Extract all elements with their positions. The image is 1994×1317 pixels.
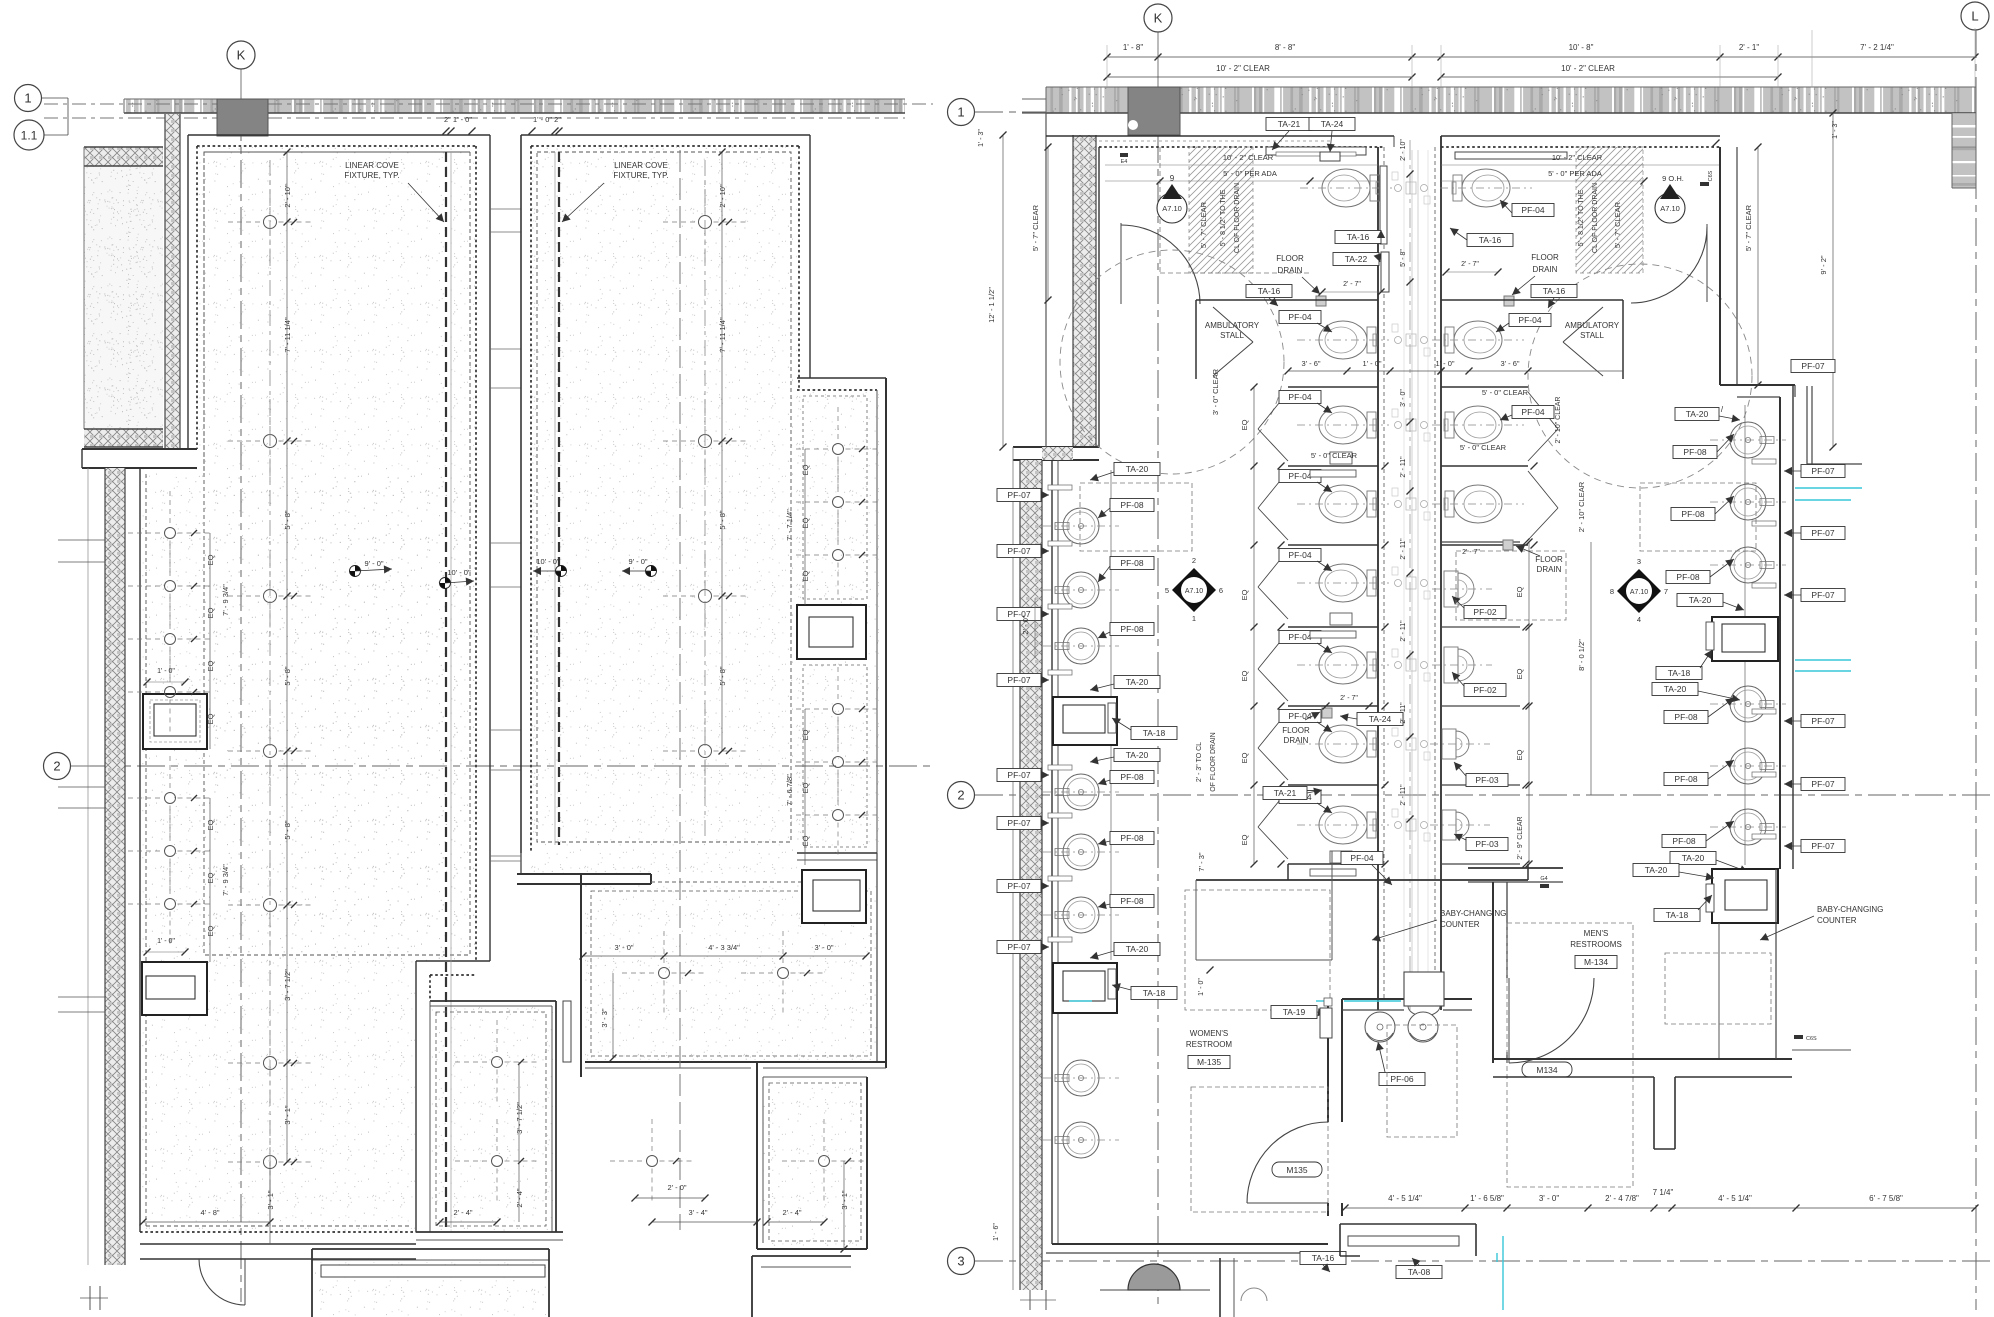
svg-text:TA-18: TA-18 — [1668, 668, 1691, 678]
label PF-02 men 1 — [1464, 606, 1506, 619]
label PF-08 women 1 — [1110, 499, 1154, 512]
svg-text:TA-18: TA-18 — [1666, 910, 1689, 920]
svg-text:DRAIN: DRAIN — [1537, 565, 1562, 574]
women vanity counter edge — [1331, 851, 1333, 960]
shelf above partition (women) a — [1310, 470, 1356, 477]
label TA-20 men ne — [1675, 408, 1719, 421]
svg-text:TA-18: TA-18 — [1143, 728, 1166, 738]
sink PF-08 men 6 — [1730, 809, 1766, 845]
svg-text:TA-16: TA-16 — [1543, 286, 1566, 296]
label TA-22 (women) — [1333, 253, 1379, 266]
women's north wall insulation dashes — [1099, 140, 1330, 142]
svg-text:TA-16: TA-16 — [1258, 286, 1281, 296]
svg-text:EQ: EQ — [1240, 589, 1249, 600]
svg-text:12' - 1 1/2": 12' - 1 1/2" — [987, 287, 996, 323]
men's sink counter line — [1744, 405, 1746, 865]
svg-text:3' - 3": 3' - 3" — [600, 1008, 609, 1027]
svg-text:5: 5 — [1165, 586, 1169, 595]
top dimension string row2 — [1107, 76, 1412, 78]
svg-text:1' - 8": 1' - 8" — [1123, 43, 1144, 52]
svg-text:TA-18: TA-18 — [1143, 988, 1166, 998]
light fixture alcove bay2 3 — [833, 810, 844, 821]
svg-text:4' - 5 1/4": 4' - 5 1/4" — [1388, 1194, 1422, 1203]
svg-text:FLOOR: FLOOR — [1276, 254, 1304, 263]
svg-text:7 1/4": 7 1/4" — [1653, 1188, 1674, 1197]
room B ceiling dashed — [537, 152, 791, 842]
urinal PF-03 men 1 — [1442, 729, 1456, 759]
label TA-20 women 3 — [1114, 749, 1160, 762]
C6S tick — [1700, 182, 1709, 186]
svg-text:7' - 11 1/4": 7' - 11 1/4" — [718, 317, 727, 353]
svg-text:2' - 3" TO CL: 2' - 3" TO CL — [1196, 742, 1203, 782]
women's bottom wall — [1052, 1243, 1328, 1245]
label PF-07 women 2 — [997, 545, 1041, 558]
stall partition women 3 — [1288, 626, 1378, 628]
west wall band B (hatched) — [1020, 460, 1042, 1290]
svg-text:2' - 9" CLEAR: 2' - 9" CLEAR — [1517, 816, 1524, 859]
svg-text:2: 2 — [1192, 556, 1196, 565]
svg-text:TA-20: TA-20 — [1126, 677, 1149, 687]
label PF-08 men 1 — [1673, 446, 1717, 459]
room B south wall — [797, 852, 877, 854]
svg-text:3: 3 — [1637, 557, 1641, 566]
label TA-20 men list — [1677, 594, 1723, 607]
svg-text:8' - 0 1/2": 8' - 0 1/2" — [1577, 639, 1586, 671]
ADA dashed clearance box (women's) — [1160, 272, 1310, 274]
label PF-08 women 4 — [1110, 771, 1154, 784]
grid bubble K (left) — [227, 41, 255, 69]
svg-text:TA-21: TA-21 — [1278, 119, 1301, 129]
toilet PF-04 women 8 — [1297, 806, 1389, 844]
svg-text:EQ: EQ — [801, 517, 810, 528]
svg-text:PF-08: PF-08 — [1672, 836, 1695, 846]
urinal screen men 3 — [1441, 705, 1520, 707]
marker A7.10 diamond (women) — [1172, 568, 1216, 612]
ADA stall side wall (men) — [1622, 300, 1624, 379]
TA-19 unit — [1320, 1008, 1332, 1038]
svg-text:TA-22: TA-22 — [1345, 254, 1368, 264]
svg-text:9: 9 — [1170, 174, 1175, 183]
svg-text:EQ: EQ — [206, 607, 215, 618]
room E inner bar — [563, 1001, 571, 1062]
label TA-20 women 2 — [1114, 676, 1160, 689]
label TA-24 (women mid) — [1357, 713, 1403, 726]
svg-text:EQ: EQ — [1240, 752, 1249, 763]
svg-text:5' - 7" CLEAR: 5' - 7" CLEAR — [1031, 204, 1040, 251]
svg-text:7' - 9 3/4": 7' - 9 3/4" — [221, 584, 230, 616]
room C walls — [651, 881, 802, 883]
light fixture room A center 7 — [264, 1156, 277, 1169]
label PF-07 men ne — [1791, 360, 1835, 373]
grid bubble 1 (right) — [948, 99, 975, 126]
grid line 2 (left, dashed) — [90, 765, 935, 767]
svg-text:PF-08: PF-08 — [1674, 774, 1697, 784]
svg-text:OF FLOOR DRAIN: OF FLOOR DRAIN — [1210, 732, 1217, 792]
stall partition men 1 — [1441, 465, 1528, 467]
svg-text:9' - 0": 9' - 0" — [628, 557, 647, 566]
label PF-08 women 5 — [1110, 832, 1154, 845]
label PF-04 women amb — [1279, 311, 1321, 324]
svg-text:3' - 6": 3' - 6" — [1500, 359, 1519, 368]
svg-text:10' - 2" CLEAR: 10' - 2" CLEAR — [1223, 153, 1274, 162]
dashed clearance urinals — [1456, 551, 1566, 620]
men's clearance dashed — [1507, 923, 1633, 1187]
svg-text:TA-20: TA-20 — [1126, 750, 1149, 760]
label TA-20 women 4 — [1114, 943, 1160, 956]
marker 9/A7.10 (women) — [1157, 193, 1187, 223]
G4 tick men — [1540, 884, 1549, 888]
label TA-08 bottom — [1396, 1266, 1442, 1279]
men's NE wall vertical — [1719, 147, 1721, 385]
svg-text:5' - 8": 5' - 8" — [283, 510, 292, 529]
label TA-18 men 1 — [1656, 667, 1702, 680]
svg-text:EQ: EQ — [1515, 749, 1524, 760]
svg-text:5' - 8": 5' - 8" — [718, 666, 727, 685]
toilet PF-04 men amb — [1432, 321, 1524, 359]
svg-text:2' - 4": 2' - 4" — [453, 1208, 472, 1217]
svg-text:2' - 10" CLEAR: 2' - 10" CLEAR — [1555, 396, 1562, 443]
svg-text:PF-07: PF-07 — [1811, 590, 1834, 600]
stall door men 2 — [1528, 471, 1558, 508]
light fixture alcove bay2 2 — [833, 757, 844, 768]
svg-text:EQ: EQ — [1240, 419, 1249, 430]
floor drain (women mid) — [1322, 708, 1332, 718]
svg-text:PF-07: PF-07 — [1007, 881, 1030, 891]
wall base ticks left — [58, 539, 105, 541]
svg-text:PF-08: PF-08 — [1681, 509, 1704, 519]
label PF-04 women 6 — [1279, 631, 1321, 644]
grid line K (right, dashed) — [1157, 135, 1159, 1310]
label TA-16 (women amb) — [1246, 285, 1292, 298]
top wall band right (hatched) — [1046, 87, 1976, 113]
svg-text:2' - 4 7/8": 2' - 4 7/8" — [1605, 1194, 1639, 1203]
svg-text:RESTROOMS: RESTROOMS — [1570, 940, 1622, 949]
light fixture room A center 5 — [264, 899, 277, 912]
below-wall stubs — [1219, 1258, 1221, 1317]
room D inner dashed — [769, 1083, 861, 1241]
sink PF-08 women 5 — [1063, 834, 1099, 870]
label PF-04 men 3 — [1512, 406, 1554, 419]
light fixture room A west 7 — [165, 899, 176, 910]
svg-text:3: 3 — [957, 1254, 964, 1269]
svg-text:TA-08: TA-08 — [1408, 1267, 1431, 1277]
grid line 1.1 (dashed) — [44, 117, 905, 119]
svg-text:E4: E4 — [1121, 159, 1128, 165]
svg-text:TA-20: TA-20 — [1126, 464, 1149, 474]
grid bubble K (right) — [1144, 4, 1172, 32]
amb door (women) — [1213, 307, 1253, 342]
light fixture room E 1 — [492, 1057, 503, 1068]
women's stall block south wall — [1288, 879, 1441, 881]
label TA-19 — [1271, 1006, 1317, 1019]
svg-text:1' - 6 5/8": 1' - 6 5/8" — [1470, 1194, 1504, 1203]
light fixture room C 2 — [778, 968, 789, 979]
svg-text:A7.10: A7.10 — [1660, 204, 1680, 213]
svg-text:WOMEN'S: WOMEN'S — [1190, 1029, 1228, 1038]
light fixture bottom 2 — [819, 1156, 830, 1167]
E4 tick women nw — [1120, 153, 1128, 157]
svg-text:M134: M134 — [1536, 1065, 1558, 1075]
label TA-18 women 2 — [1131, 987, 1177, 1000]
svg-text:FIXTURE, TYP.: FIXTURE, TYP. — [344, 171, 399, 180]
column at grid K (right) — [1128, 87, 1180, 135]
mirror TA-18 (men) 2 — [1712, 869, 1778, 923]
svg-text:PF-07: PF-07 — [1811, 466, 1834, 476]
svg-text:2' - 10" CLEAR: 2' - 10" CLEAR — [1577, 481, 1586, 532]
svg-text:2' - 11": 2' - 11" — [1400, 620, 1407, 642]
label TA-18 women 1 — [1131, 727, 1177, 740]
top band left stub — [1022, 98, 1046, 100]
svg-text:FLOOR: FLOOR — [1531, 253, 1559, 262]
svg-text:TA-20: TA-20 — [1689, 595, 1712, 605]
label TA-21 (women top) — [1266, 118, 1312, 131]
sink PF-08 men 2 — [1730, 484, 1766, 520]
top wall band (hatched) — [124, 99, 905, 113]
svg-text:PF-07: PF-07 — [1007, 770, 1030, 780]
grid line L (dashed) — [1975, 30, 1977, 1310]
label PF-04 women 8 — [1279, 791, 1321, 804]
light fixture room A west 4 — [165, 687, 176, 698]
light fixture room A center 4 — [264, 745, 277, 758]
label PF-07 women 4 — [997, 674, 1041, 687]
svg-text:AMBULATORY: AMBULATORY — [1565, 321, 1620, 330]
cyan bottom accent — [1502, 1236, 1504, 1310]
sink PF-08 women 8 — [1063, 1122, 1099, 1158]
toilet PF-04 men 4 — [1432, 485, 1524, 523]
chase centerline — [1409, 140, 1411, 1010]
fountain dark semicircle — [1128, 1264, 1180, 1290]
wall base bottom marks — [89, 1286, 91, 1310]
stall partition women 6 — [1288, 863, 1378, 865]
clearance dashed box women nw — [1080, 483, 1192, 551]
men's NE niche wall — [1806, 386, 1808, 464]
svg-text:PF-08: PF-08 — [1683, 447, 1706, 457]
label PF-08 women 2 — [1110, 557, 1154, 570]
toilet PF-04 women 4 — [1297, 485, 1389, 523]
label PF-08 women 6 — [1110, 895, 1154, 908]
bottom changing room — [1340, 1223, 1476, 1225]
vanity dashed boxes — [1387, 1025, 1457, 1137]
stall door men 1 — [1528, 392, 1558, 429]
svg-text:A7.10: A7.10 — [1630, 589, 1648, 596]
svg-text:L: L — [1971, 9, 1978, 24]
men's baby counter edge — [1718, 923, 1720, 1059]
svg-text:EQ: EQ — [206, 925, 215, 936]
svg-text:PF-07: PF-07 — [1811, 841, 1834, 851]
label PF-07 women 1 — [997, 489, 1041, 502]
linear cove dashed line room A — [445, 152, 447, 1228]
label PF-04 women 4 — [1279, 470, 1321, 483]
grid bubble 1.1 — [14, 120, 44, 150]
light fixture room E 2 — [492, 1156, 503, 1167]
svg-text:7' - 3": 7' - 3" — [1197, 852, 1206, 871]
room A door arc (south) — [199, 1259, 245, 1305]
svg-text:7' - 9 3/4": 7' - 9 3/4" — [221, 864, 230, 896]
men's north wall — [1441, 135, 1720, 137]
stall partition women 5 — [1288, 784, 1378, 786]
svg-text:8: 8 — [1610, 587, 1614, 596]
svg-text:PF-04: PF-04 — [1521, 407, 1544, 417]
svg-text:EQ: EQ — [1240, 670, 1249, 681]
toilet PF-04 women 7 — [1297, 725, 1389, 763]
svg-text:PF-07: PF-07 — [1007, 490, 1030, 500]
urinal screen men 4 — [1441, 784, 1520, 786]
svg-text:TA-24: TA-24 — [1321, 119, 1344, 129]
svg-text:3' - 6": 3' - 6" — [1301, 359, 1320, 368]
label TA-16 men top — [1467, 234, 1513, 247]
label PF-08 women 3 — [1110, 623, 1154, 636]
svg-text:AMBULATORY: AMBULATORY — [1205, 321, 1260, 330]
light fixture room A west 6 — [165, 846, 176, 857]
svg-text:3' - 0": 3' - 0" — [1539, 1194, 1560, 1203]
svg-text:STALL: STALL — [1220, 331, 1244, 340]
svg-text:PF-08: PF-08 — [1676, 572, 1699, 582]
room A floor (stipple) — [197, 146, 476, 961]
room A east wall — [489, 135, 491, 961]
stall door women 6 — [1258, 790, 1288, 827]
urinal screen men 2 — [1441, 626, 1520, 628]
label PF-03 men 1 — [1466, 774, 1508, 787]
light fixture room A west 3 — [165, 634, 176, 645]
svg-text:2' - 7": 2' - 7" — [1462, 549, 1480, 556]
svg-text:2' - 7": 2' - 7" — [1461, 261, 1479, 268]
label PF-07 women 8 — [997, 941, 1041, 954]
label M134 — [1522, 1062, 1572, 1077]
room A fixture centerline — [269, 160, 271, 1230]
svg-text:CL OF FLOOR DRAIN: CL OF FLOOR DRAIN — [1592, 183, 1599, 253]
label TA-18 men 2 — [1654, 909, 1700, 922]
label PF-07 women 6 — [997, 817, 1041, 830]
chase pipes (faint) — [1395, 185, 1402, 192]
svg-text:1: 1 — [24, 91, 31, 106]
svg-text:1' - 0": 1' - 0" — [1362, 359, 1381, 368]
label PF-07 men 3 — [1801, 589, 1845, 602]
label PF-07 women 7 — [997, 880, 1041, 893]
svg-text:PF-02: PF-02 — [1473, 685, 1496, 695]
shelf above partition (women) b — [1310, 631, 1356, 638]
svg-text:2' - 0": 2' - 0" — [1021, 615, 1030, 634]
svg-text:1' - 3": 1' - 3" — [1832, 121, 1839, 139]
room D walls — [756, 1062, 758, 1249]
light fixture room B center 2 — [699, 435, 712, 448]
room E floor (stipple) — [430, 1006, 553, 1232]
svg-text:7' - 2 1/4": 7' - 2 1/4" — [1860, 43, 1894, 52]
svg-text:PF-08: PF-08 — [1120, 558, 1143, 568]
label PF-07 men 5 — [1801, 778, 1845, 791]
svg-text:2' - 7": 2' - 7" — [1340, 695, 1358, 702]
svg-text:BABY-CHANGING: BABY-CHANGING — [1440, 909, 1506, 918]
svg-text:2' - 7": 2' - 7" — [1343, 281, 1361, 288]
svg-text:PF-08: PF-08 — [1120, 624, 1143, 634]
sink PF-08 men 4 — [1730, 686, 1766, 722]
label PF-08 men 2 — [1671, 508, 1715, 521]
left outside strip (stipple) — [84, 166, 163, 429]
women's south wall at vanity — [1327, 999, 1329, 1122]
light fixture room B center 3 — [699, 590, 712, 603]
svg-text:5' - 8": 5' - 8" — [283, 820, 292, 839]
toilet PF-04 women 6 — [1297, 646, 1389, 684]
svg-text:4: 4 — [1637, 615, 1641, 624]
svg-text:PF-04: PF-04 — [1288, 392, 1311, 402]
svg-text:PF-07: PF-07 — [1007, 546, 1030, 556]
svg-text:10' - 2" CLEAR: 10' - 2" CLEAR — [1552, 153, 1603, 162]
amb door (men) — [1563, 307, 1603, 342]
svg-text:3' - 1": 3' - 1" — [840, 1190, 849, 1209]
line east of stub — [1792, 1049, 1851, 1051]
svg-text:PF-04: PF-04 — [1518, 315, 1541, 325]
door M134 — [1508, 978, 1510, 1063]
svg-text:2" 1' - 0": 2" 1' - 0" — [444, 115, 472, 124]
alcove niche box — [797, 605, 866, 659]
svg-text:PF-07: PF-07 — [1007, 818, 1030, 828]
grid line 1 (right, dashed) — [975, 111, 1046, 113]
svg-text:9' - 2": 9' - 2" — [1819, 255, 1828, 274]
baby counter clearance dashed (women) — [1185, 890, 1330, 1010]
women's entry door arc — [1120, 223, 1122, 304]
svg-text:RESTROOM: RESTROOM — [1186, 1040, 1233, 1049]
svg-text:2' - 0": 2' - 0" — [667, 1183, 686, 1192]
svg-text:3' - 4": 3' - 4" — [688, 1208, 707, 1217]
svg-text:1' - 0" 2": 1' - 0" 2" — [533, 115, 561, 124]
women's turning circle (dashed) — [1060, 250, 1284, 474]
svg-text:1.1: 1.1 — [21, 128, 38, 142]
label TA-16 bottom — [1300, 1252, 1346, 1265]
light fixture room A center 1 — [264, 216, 277, 229]
svg-text:TA-16: TA-16 — [1347, 232, 1370, 242]
room C inner dashed — [591, 891, 871, 1056]
svg-text:A7.10: A7.10 — [1162, 204, 1182, 213]
svg-text:EQ: EQ — [801, 464, 810, 475]
light fixture room A west 1 — [165, 528, 176, 539]
svg-text:7' - 7 1/4": 7' - 7 1/4" — [785, 509, 794, 541]
room A west wall (upper) — [187, 135, 189, 449]
top dimension string row1 — [1107, 56, 1975, 58]
svg-text:PF-04: PF-04 — [1288, 632, 1311, 642]
grid bubble 2 (left) — [44, 753, 71, 780]
svg-text:2: 2 — [957, 788, 964, 803]
svg-text:K: K — [1154, 11, 1163, 26]
svg-text:3' - 7 1/2": 3' - 7 1/2" — [283, 969, 292, 1001]
mirror TA-18 (women) 1 — [1053, 697, 1117, 745]
room B west wall — [520, 135, 522, 853]
cyan accents men east — [1795, 487, 1862, 489]
svg-text:1' - 0": 1' - 0" — [157, 938, 175, 945]
svg-text:CL OF FLOOR DRAIN: CL OF FLOOR DRAIN — [1234, 183, 1241, 253]
sink PF-08 women 7 — [1063, 1060, 1099, 1096]
svg-text:PF-07: PF-07 — [1811, 779, 1834, 789]
svg-text:2' - 11": 2' - 11" — [1400, 456, 1407, 478]
svg-text:EQ: EQ — [801, 729, 810, 740]
svg-text:5' - 0" PER ADA: 5' - 0" PER ADA — [1548, 169, 1602, 178]
toilet PF-04 women ADA — [1300, 169, 1392, 207]
ceiling height target 10-0 room B — [556, 566, 567, 577]
label PF-03 men 2 — [1466, 838, 1508, 851]
sink counter line (women) — [1057, 460, 1059, 1244]
svg-text:1: 1 — [957, 105, 964, 120]
svg-text:5' - 8 1/2" TO THE: 5' - 8 1/2" TO THE — [1220, 189, 1227, 246]
label TA-20 men top2 — [1633, 864, 1679, 877]
svg-text:PF-03: PF-03 — [1475, 839, 1498, 849]
svg-text:1' - 6": 1' - 6" — [993, 1223, 1000, 1241]
light fixture alcove bay1 3 — [833, 550, 844, 561]
svg-text:PF-08: PF-08 — [1120, 833, 1143, 843]
svg-text:2' - 4": 2' - 4" — [782, 1208, 801, 1217]
stall partition women 4 — [1288, 705, 1378, 707]
jog wall left — [82, 449, 197, 468]
alcove bay 2 inner dashed — [803, 665, 867, 847]
vanity sinks PF-06 — [1365, 1012, 1395, 1042]
svg-text:3' - 1": 3' - 1" — [283, 1105, 292, 1124]
